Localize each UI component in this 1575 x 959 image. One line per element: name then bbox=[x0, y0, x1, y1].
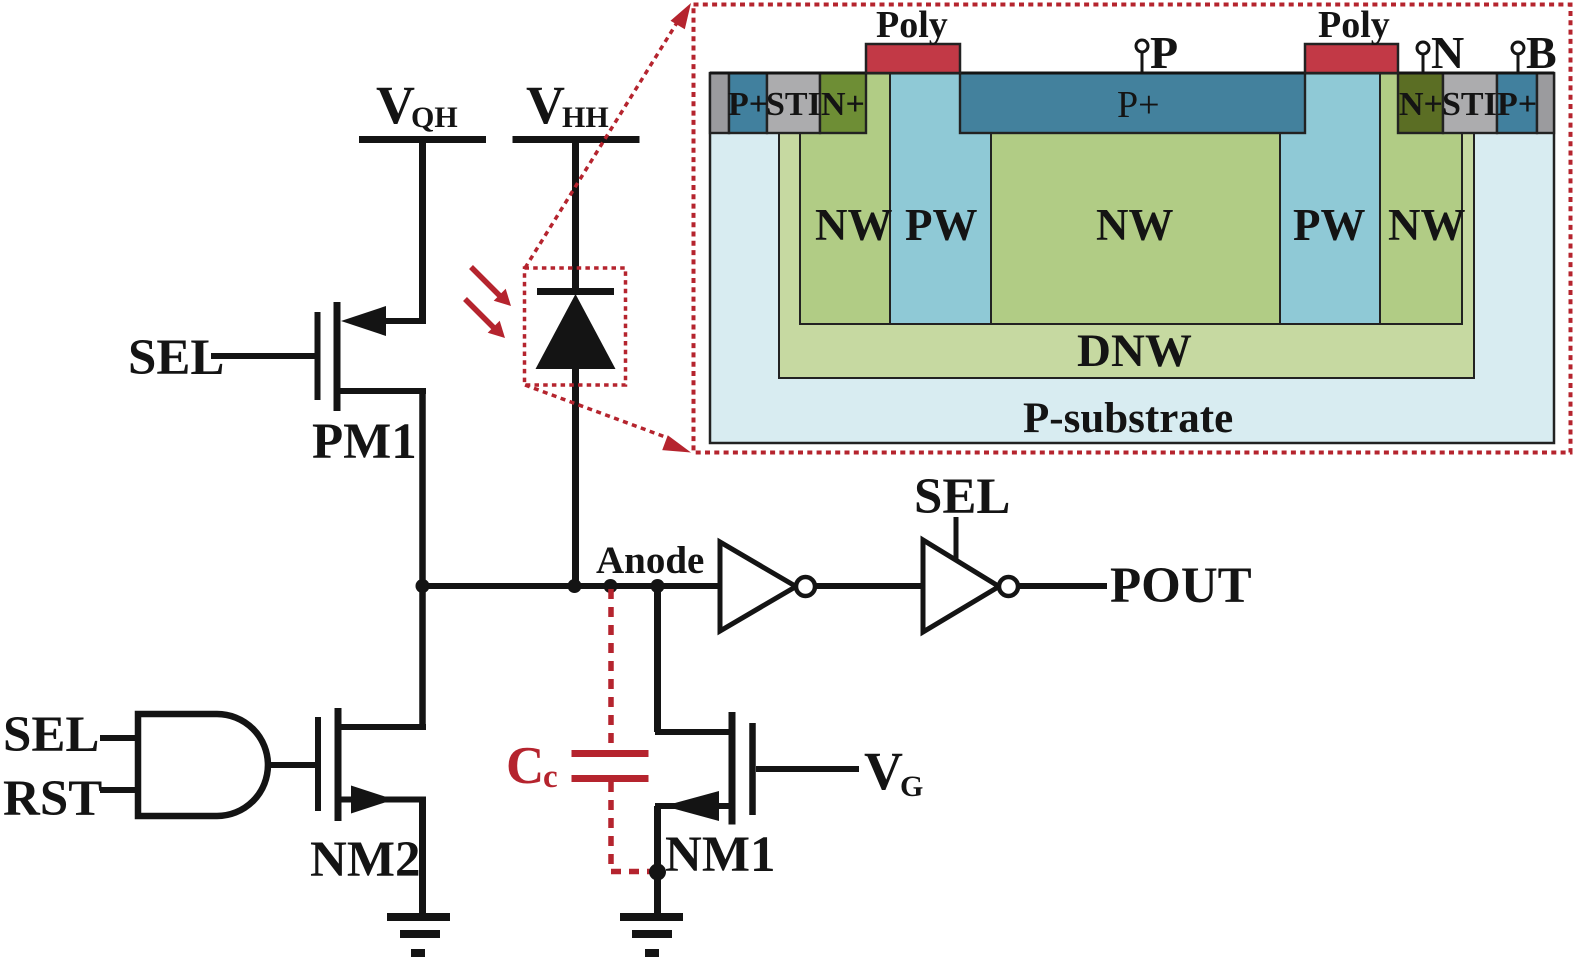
P+ tap left bbox=[729, 73, 767, 133]
svg-text:NW: NW bbox=[1388, 200, 1466, 250]
svg-text:PW: PW bbox=[1293, 200, 1366, 250]
well NW1 bbox=[800, 73, 890, 324]
left edge STI bbox=[710, 73, 729, 133]
wire node Anode horizontal bbox=[418, 583, 720, 589]
terminal N bbox=[1417, 27, 1464, 78]
inverter INV1 bbox=[720, 542, 815, 631]
P-substrate region bbox=[710, 74, 1554, 444]
terminal B bbox=[1512, 27, 1557, 78]
N+ tap left bbox=[820, 73, 866, 133]
svg-text:N+: N+ bbox=[821, 86, 865, 123]
wire V_QH to PM1 source bbox=[419, 139, 426, 324]
svg-text:V: V bbox=[864, 741, 903, 801]
svg-text:PW: PW bbox=[905, 200, 978, 250]
well NW3 bbox=[1380, 73, 1462, 324]
svg-text:Poly: Poly bbox=[1318, 4, 1390, 46]
transistor NM1 bbox=[655, 712, 753, 825]
junction dot C_c tap bbox=[604, 579, 618, 593]
ground (NM1) bbox=[620, 917, 683, 953]
svg-text:POUT: POUT bbox=[1110, 558, 1252, 614]
wire AND output to NM2 gate bbox=[268, 762, 315, 768]
right edge STI bbox=[1537, 73, 1554, 133]
zoom callout dashed border bbox=[694, 5, 1571, 453]
svg-text:STI: STI bbox=[1442, 86, 1497, 123]
svg-text:PM1: PM1 bbox=[312, 414, 417, 470]
power rail V_QH bbox=[359, 75, 486, 140]
poly gate left bbox=[866, 44, 960, 73]
junction dot photodiode anode bbox=[568, 579, 582, 593]
capacitor C_c bbox=[572, 754, 649, 779]
well PW1 bbox=[890, 73, 991, 324]
svg-text:V: V bbox=[526, 75, 565, 135]
svg-text:P+: P+ bbox=[728, 86, 768, 123]
P+ tap right bbox=[1497, 73, 1537, 133]
svg-text:N: N bbox=[1431, 27, 1464, 78]
wire NM1 gate to V_G bbox=[756, 766, 859, 772]
label C_c bbox=[506, 737, 558, 795]
terminal P bbox=[1136, 27, 1178, 78]
callout dashed line bottom bbox=[525, 385, 691, 453]
light arrow 2 bbox=[465, 299, 505, 338]
wire RST to AND input bbox=[100, 787, 138, 793]
svg-text:NW: NW bbox=[815, 200, 893, 250]
svg-text:NM2: NM2 bbox=[310, 832, 420, 888]
dashed connection C_c to NM1 source bbox=[611, 869, 650, 875]
light arrow 1 bbox=[471, 267, 511, 306]
junction dot PM1 drain bbox=[416, 579, 430, 593]
wire INV2 output to POUT bbox=[1018, 583, 1107, 589]
zoom callout box around photodiode bbox=[525, 268, 626, 385]
AND gate U1 bbox=[138, 714, 268, 816]
svg-text:C: C bbox=[506, 737, 544, 795]
dashed connection C_c bottom bbox=[608, 782, 614, 869]
junction dot NM1 source bbox=[649, 864, 666, 881]
transistor NM2 bbox=[318, 708, 426, 821]
deep n-well DNW region bbox=[779, 133, 1474, 378]
svg-text:HH: HH bbox=[562, 101, 609, 134]
svg-text:P+: P+ bbox=[1497, 86, 1537, 123]
svg-text:NM1: NM1 bbox=[665, 827, 775, 883]
svg-text:Poly: Poly bbox=[876, 4, 948, 46]
wire PM1 drain to NM2 drain bbox=[419, 391, 426, 730]
ground (NM2) bbox=[387, 917, 450, 953]
wire SEL to PM1 gate bbox=[211, 353, 315, 359]
inverter INV2 (tri-state, SEL enable) bbox=[923, 517, 1018, 632]
svg-text:SEL: SEL bbox=[914, 469, 1010, 525]
svg-text:STI: STI bbox=[766, 86, 821, 123]
callout dashed line top bbox=[525, 3, 691, 268]
surface line bbox=[710, 72, 1554, 75]
svg-text:P: P bbox=[1150, 27, 1178, 78]
svg-text:QH: QH bbox=[411, 101, 458, 134]
svg-text:RST: RST bbox=[3, 771, 102, 827]
wire NM2 source to ground bbox=[419, 799, 426, 917]
svg-text:DNW: DNW bbox=[1077, 325, 1192, 377]
transistor PM1 bbox=[318, 302, 427, 411]
wire V_HH to photodiode cathode bbox=[572, 139, 579, 295]
wire photodiode anode to node Anode bbox=[572, 367, 579, 586]
svg-text:P+: P+ bbox=[1117, 84, 1160, 126]
svg-text:c: c bbox=[543, 759, 558, 795]
svg-text:N+: N+ bbox=[1399, 86, 1443, 123]
svg-text:G: G bbox=[900, 770, 923, 803]
wire SEL to AND input bbox=[100, 735, 138, 741]
svg-text:NW: NW bbox=[1096, 200, 1174, 250]
well PW2 bbox=[1280, 73, 1380, 324]
wire NM1 source to ground bbox=[654, 806, 661, 917]
photodiode D1 bbox=[536, 292, 616, 370]
svg-text:SEL: SEL bbox=[3, 707, 99, 763]
svg-text:V: V bbox=[376, 75, 415, 135]
junction dot NM1 drain bbox=[651, 579, 665, 593]
svg-text:P-substrate: P-substrate bbox=[1023, 395, 1233, 442]
power rail V_HH bbox=[513, 75, 640, 140]
wire Anode to NM1 drain bbox=[654, 586, 661, 732]
svg-text:SEL: SEL bbox=[128, 330, 224, 386]
label V_G bbox=[864, 741, 923, 803]
dashed connection C_c top to Anode bbox=[608, 589, 614, 750]
wire INV1 output to INV2 input bbox=[815, 583, 923, 589]
P+ anode region bbox=[960, 73, 1305, 133]
poly gate right bbox=[1305, 44, 1398, 73]
well NW2 bbox=[991, 133, 1280, 324]
svg-text:Anode: Anode bbox=[596, 539, 704, 582]
STI right bbox=[1443, 73, 1497, 133]
svg-text:B: B bbox=[1526, 27, 1557, 78]
N+ tap right bbox=[1398, 73, 1443, 133]
STI left bbox=[767, 73, 820, 133]
